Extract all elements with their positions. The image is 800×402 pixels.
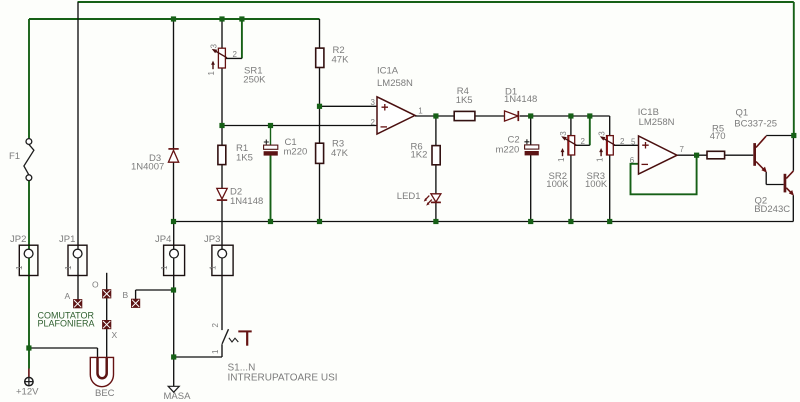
wire ground rail to JP4 [173,222,175,276]
svg-text:MASA: MASA [164,391,192,402]
wire C1 bottom to ground rail [270,155,272,221]
svg-text:X: X [112,330,118,340]
svg-text:BC337-25: BC337-25 [734,119,777,130]
wire D3 to ground rail [173,162,175,221]
capacitor C1 [264,140,278,156]
junction node B/JP4 column [171,287,176,292]
svg-text:LM258N: LM258N [639,117,675,128]
svg-text:1K2: 1K2 [411,150,428,161]
trimmer SR2 [557,131,576,162]
junction rail/SR1 wiper [239,16,244,21]
wire Q2 collector riser [792,136,794,171]
ground MASA [168,386,179,392]
lamp BEC [90,357,113,386]
wire D1 to C2 node [520,115,531,117]
trimmer SR1 [207,44,227,76]
wire fuse feed [28,19,30,139]
svg-text:PLAFONIERA: PLAFONIERA [38,319,95,329]
wire rail to SR1 top [221,19,223,48]
wire R4 to D1 [475,115,505,117]
svg-text:Q1: Q1 [736,108,749,119]
diode D1 [505,111,519,121]
junction IC1A out/R6 [433,113,438,118]
svg-text:3: 3 [371,98,376,107]
junction ground/SR3 [607,219,612,224]
junction ground/C2 [528,219,533,224]
wire JP4 to MASA [173,276,175,387]
wire Q2 emitter to ground [792,195,794,221]
svg-text:IC1A: IC1A [377,66,399,77]
svg-text:2: 2 [233,50,238,59]
junction SR2 wiper riser [587,113,592,118]
wire SR2 top drop [570,116,572,136]
wire IC1A pin2 net [222,125,377,127]
wire IC1A pin3 net [320,105,378,107]
svg-text:LM258N: LM258N [377,78,413,89]
junction IC1B out/feedback [694,153,699,158]
svg-text:2: 2 [581,137,586,146]
junction ground/JP4 column [171,219,176,224]
wire node B to JP4 column [136,289,174,291]
wire fuse to JP2 [28,181,30,276]
wire SR2 wiper stub [575,144,590,146]
svg-text:1: 1 [208,265,217,270]
svg-text:2: 2 [211,323,220,328]
svg-text:1N4007: 1N4007 [131,162,164,173]
svg-text:2: 2 [620,137,625,146]
junction SR2 top [568,113,573,118]
svg-text:100K: 100K [546,179,569,190]
wire JP2 to +12V node [28,276,30,369]
wire switch to MASA rail [221,344,223,357]
wire SR1 wiper riser [241,19,243,58]
svg-text:1N4148: 1N4148 [504,94,537,105]
wire JP1 to node A [77,276,79,304]
svg-text:1N4148: 1N4148 [230,196,263,207]
diode D3 [168,149,178,162]
wire IC1B output to R5 [677,154,707,156]
wire node B stub [135,290,137,300]
wire node O to node X to lamp [106,273,108,363]
junction rail/SR1 column [219,16,224,21]
wire Q1 emitter drop [765,172,767,185]
junction MASA rail [171,354,176,359]
wire C2 top stub [530,116,532,145]
wire IC1B feedback loop [631,155,697,194]
svg-text:F1: F1 [9,151,20,162]
resistor R2 [316,48,324,67]
svg-text:A: A [65,291,71,301]
svg-text:BD243C: BD243C [754,204,790,215]
junction divider/pin3 [317,104,322,109]
node A pad [73,299,82,308]
svg-text:47K: 47K [331,148,349,159]
wire top supply rail [78,1,794,3]
wire SR1 bottom to R1 [221,68,223,145]
svg-text:1: 1 [15,265,24,270]
wire R6 to LED1 [435,165,437,194]
supply symbol +12V [25,369,33,386]
switch S1 [211,323,252,355]
svg-text:3: 3 [559,131,568,136]
svg-text:BEC: BEC [95,388,115,399]
svg-text:1: 1 [160,265,169,270]
svg-text:INTRERUPATOARE USI: INTRERUPATOARE USI [228,373,338,384]
svg-text:1: 1 [207,71,216,76]
wire SR2 bottom to ground [570,155,572,222]
svg-text:O: O [92,280,99,290]
svg-text:JP1: JP1 [59,234,75,245]
node B pad [131,299,140,308]
resistor R5 [707,151,725,159]
transistor Q1 [753,136,767,173]
svg-text:1: 1 [596,157,605,162]
wire SR3 wiper to IC1B pin5 [613,144,638,146]
svg-text:+12V: +12V [16,387,39,398]
wire SR3 top feed [609,116,611,136]
wire output node to R6 [435,116,437,146]
op-amp IC1B [639,136,678,174]
wire Q1 collector to supply [766,135,794,137]
svg-text:JP2: JP2 [10,234,26,245]
wire D2 to JP3 [221,201,223,276]
trimmer SR3 [596,131,615,162]
diode D2 [217,188,227,200]
wire R1 to D2 [221,165,223,189]
svg-text:470: 470 [710,131,726,142]
junction ground/LED1 [433,219,438,224]
wire right supply drop [793,2,795,136]
svg-text:B: B [123,290,129,300]
wire LED1 to ground [435,202,437,221]
svg-text:JP3: JP3 [204,234,220,245]
junction ground/R3 [317,219,322,224]
wire comparator output net right part [531,115,610,117]
wire SR2 wiper riser [589,116,591,145]
junction collectors/supply [791,133,796,138]
wire +12V branch horizontal [29,347,98,349]
svg-text:m220: m220 [284,147,308,158]
svg-text:6: 6 [630,156,635,165]
svg-text:3: 3 [598,131,607,136]
node O pad [102,289,111,298]
op-amp IC1A [377,97,415,134]
wire Q1 emitter to Q2 base [766,184,783,186]
resistor R6 [432,146,440,165]
junction ground/C1 [268,219,273,224]
junction +12V branch [26,345,31,350]
svg-text:1K5: 1K5 [456,95,473,106]
junction R1/pin2 net [219,123,224,128]
connector JP3 [208,245,233,275]
junction C1/pin2 net [268,123,273,128]
svg-text:JP4: JP4 [155,234,171,245]
resistor R3 [316,143,324,163]
wire MASA rail [174,356,222,358]
svg-text:7: 7 [680,145,685,154]
wire ground rail [174,221,794,223]
wire rail to R2 [319,19,321,48]
svg-text:1K5: 1K5 [236,153,253,164]
node X pad [102,320,111,329]
wire R2 to R3 divider [319,68,321,144]
connector JP2 [15,245,38,275]
svg-text:47K: 47K [332,55,350,66]
wire C2 bottom to ground [530,155,532,222]
wire JP1 feed from top rail [77,2,79,276]
svg-text:100K: 100K [585,179,608,190]
wire R3 to ground rail [319,164,321,222]
wire JP3 to switch [221,276,223,331]
svg-text:1: 1 [418,107,423,116]
transistor Q2 [784,171,794,196]
wire SR1 wiper stub [226,57,242,59]
wire upper +12V rail y=19 [29,18,320,20]
fuse F1 [24,139,34,181]
wire lamp left lead [97,348,99,362]
wire rail to D3 [173,19,175,149]
connector JP4 [160,245,185,275]
wire C1 top stub [270,126,272,146]
svg-text:m220: m220 [496,145,520,156]
svg-text:1: 1 [211,349,220,354]
junction C2 node [528,113,533,118]
wire R5 to Q1 base [725,154,754,156]
svg-text:250K: 250K [243,75,266,86]
connector JP1 [64,245,87,275]
svg-text:1: 1 [557,157,566,162]
resistor R1 [218,145,226,164]
junction ground/SR2 [568,219,573,224]
svg-text:1: 1 [64,265,73,270]
wire IC1A output to R4 [415,115,454,117]
wire SR3 bottom to ground [609,155,611,222]
LED LED1 [424,194,441,206]
svg-text:LED1: LED1 [397,191,421,202]
junction rail/D3 column [171,16,176,21]
svg-text:5: 5 [631,138,636,147]
resistor R4 [454,111,475,120]
svg-text:3: 3 [210,44,219,49]
capacitor C2 [524,139,538,155]
svg-text:2: 2 [371,118,376,127]
